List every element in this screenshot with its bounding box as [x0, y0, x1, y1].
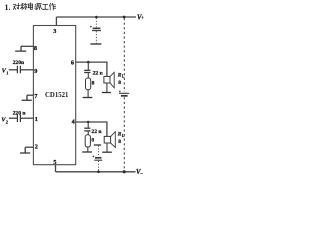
工 — [42, 4, 48, 9]
svg-text:2: 2 — [6, 119, 8, 124]
ground below R2 — [82, 151, 92, 153]
capacitor C6 plates — [84, 70, 90, 72]
wire C7 to R2 — [87, 132, 89, 135]
源 — [35, 4, 42, 10]
top +V rail wire — [56, 16, 136, 18]
ground below R1 — [83, 97, 93, 99]
speaker LS1 cone — [110, 72, 114, 88]
pin 7 wire — [27, 94, 33, 96]
svg-text:3: 3 — [53, 28, 56, 35]
wire C4 to pin 9 — [21, 69, 34, 71]
作 — [49, 3, 55, 10]
svg-text:220 n: 220 n — [13, 111, 27, 117]
title 1.对称电源工作 — [5, 3, 56, 12]
ground at pin 2 — [20, 147, 30, 153]
svg-text:1: 1 — [6, 70, 8, 75]
ground below LS2 — [102, 151, 112, 153]
svg-text:6: 6 — [71, 59, 74, 66]
IC U1 CD1521 box — [33, 26, 75, 165]
capacitor C4 plates — [17, 66, 20, 74]
svg-text:−: − — [140, 172, 143, 177]
pin 6 output wire — [76, 62, 107, 76]
inverted ground above C2 — [94, 144, 101, 146]
dashed wire to -V rail — [123, 97, 125, 171]
svg-text:8: 8 — [92, 80, 95, 86]
resistor R2 — [85, 135, 90, 147]
ground below C1 — [90, 43, 101, 45]
wire C5 to pin 1 — [21, 117, 34, 119]
node junction on +V rail (cap C1) — [95, 16, 98, 19]
ground at pin 7 — [22, 95, 32, 100]
dotted wire C2 to -V rail — [98, 161, 100, 171]
wire to C7 — [87, 122, 89, 128]
wire LS2 to ground — [106, 143, 108, 152]
svg-text:8: 8 — [34, 45, 37, 52]
svg-text:22 n: 22 n — [93, 70, 104, 76]
svg-text:+: + — [141, 16, 144, 21]
wire V2 to C5 — [9, 117, 17, 119]
svg-text:220n: 220n — [13, 60, 25, 66]
称 — [21, 3, 28, 9]
speaker LS2 cone — [111, 132, 116, 148]
电 — [28, 3, 32, 10]
speaker LS2 box — [104, 136, 110, 143]
wire dotted stub C1 to ground — [95, 31, 97, 43]
svg-text:7: 7 — [34, 93, 37, 100]
svg-text:4: 4 — [72, 118, 75, 125]
speaker LS1 box — [104, 76, 110, 83]
wire R2 to ground — [87, 147, 89, 152]
node junction dashed branch on -V rail — [123, 170, 126, 173]
pin 3 stub wire — [55, 17, 57, 26]
svg-text:9: 9 — [34, 68, 37, 75]
svg-text:2: 2 — [35, 143, 38, 150]
wire to C6 — [87, 62, 89, 70]
svg-text:1: 1 — [35, 116, 38, 123]
wire R1 to ground — [87, 90, 89, 98]
ground below LS1 — [102, 92, 111, 94]
node junction zobel 2 — [87, 121, 90, 124]
svg-text:CD1521: CD1521 — [45, 92, 69, 99]
wire dotted stub to C1 — [95, 18, 97, 27]
pin 2 wire — [25, 146, 33, 148]
svg-text:8: 8 — [118, 80, 121, 86]
capacitor C5 plates — [17, 114, 20, 122]
wire V1 to C4 — [9, 69, 17, 71]
svg-text:1.: 1. — [5, 3, 11, 12]
resistor R1 — [86, 78, 91, 90]
对 — [13, 3, 19, 9]
dashed wire down right side — [123, 18, 125, 92]
capacitor C2 electrolytic (gnd to -V) — [92, 155, 102, 160]
svg-text:22 n: 22 n — [91, 129, 102, 135]
node junction zobel 1 — [87, 61, 90, 64]
ground at pin 8 — [15, 46, 26, 51]
pin 8 wire — [21, 45, 33, 47]
node junction C2 on -V rail — [97, 171, 100, 174]
svg-text:8: 8 — [118, 139, 121, 145]
bottom -V rail wire — [56, 171, 136, 173]
svg-text:8: 8 — [91, 138, 94, 144]
wire LS1 to ground — [106, 83, 108, 92]
node junction on +V rail (dashed branch) — [123, 16, 126, 19]
wire C6 to R1 — [87, 73, 89, 78]
capacitor C3 in dashed branch — [119, 90, 129, 95]
pin 5 stub to -V rail — [55, 165, 57, 172]
pin 4 output wire — [76, 122, 107, 136]
capacitor C1 electrolytic (+V to gnd) — [90, 26, 101, 31]
dotted wire ground to C2 — [98, 146, 100, 157]
capacitor C7 plates — [84, 128, 90, 131]
